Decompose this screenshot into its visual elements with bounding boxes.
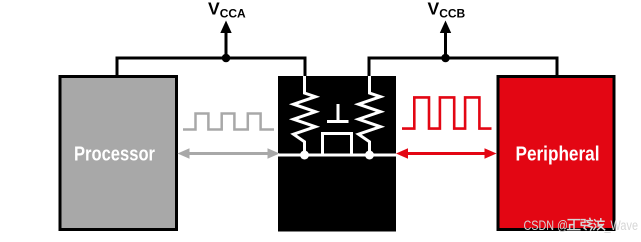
svg-text:_Wave: _Wave <box>604 218 638 233</box>
node line (white, inside shifter) <box>278 154 396 157</box>
node dot A <box>300 151 309 160</box>
wire VCCA arrow stem <box>225 30 228 58</box>
block Peripheral <box>498 77 614 230</box>
transistor pass-FET gate bar <box>327 120 349 123</box>
junction dot VCCB <box>441 54 450 63</box>
resistor pull-up A (white zigzag) <box>294 76 316 155</box>
waveform high-voltage (red) <box>402 97 492 128</box>
transistor pass-FET gate stem <box>337 104 340 122</box>
node dot B <box>365 151 374 160</box>
VCCB arrowhead <box>440 21 451 34</box>
block Processor <box>60 77 177 230</box>
watermark CSDN <box>524 218 639 233</box>
watermark glyph bo <box>594 219 605 230</box>
VCCA arrowhead <box>220 21 231 34</box>
transistor pass-FET channel <box>323 134 352 156</box>
svg-text:CSDN @: CSDN @ <box>524 218 569 233</box>
waveform low-voltage (gray) <box>183 114 274 130</box>
resistor pull-up B (white zigzag) <box>359 76 381 155</box>
block level-shifter (black) <box>278 76 396 232</box>
wire VCCB arrow stem <box>444 30 447 58</box>
watermark glyph xian <box>581 218 592 230</box>
svg-text:Peripheral: Peripheral <box>516 143 600 166</box>
watermark glyph zheng <box>568 220 580 230</box>
wire VCCA rail (processor top to shifter top) <box>117 58 305 78</box>
arrow bidirectional red (shifter to peripheral) <box>396 148 497 159</box>
arrow bidirectional gray (processor to shifter) <box>178 148 280 159</box>
wire VCCB rail (shifter top to peripheral top) <box>369 58 557 78</box>
junction dot VCCA <box>222 54 231 63</box>
svg-text:Processor: Processor <box>74 143 155 166</box>
